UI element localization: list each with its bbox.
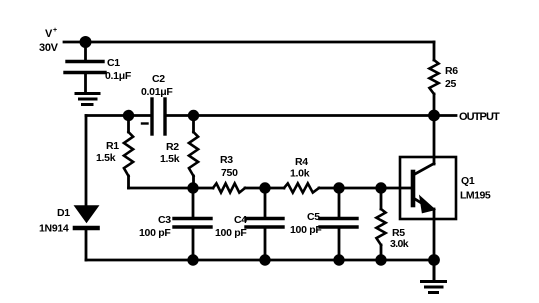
node junction R1/C2 xyxy=(123,110,134,121)
svg-text:C4: C4 xyxy=(234,214,247,226)
svg-text:1N914: 1N914 xyxy=(39,223,69,235)
node junction R5 bottom xyxy=(375,254,386,265)
svg-text:R4: R4 xyxy=(295,156,308,168)
label C3 value xyxy=(139,214,171,239)
svg-text:30V: 30V xyxy=(39,42,59,54)
label R6 value xyxy=(445,65,458,90)
node junction R4/C5 xyxy=(333,182,344,193)
node junction top-left xyxy=(80,36,92,48)
svg-text:1.5k: 1.5k xyxy=(96,152,116,164)
label R1 value xyxy=(96,140,119,164)
label Q1 value xyxy=(460,175,491,202)
node junction R2/C2 xyxy=(188,110,199,121)
svg-text:LM195: LM195 xyxy=(460,190,491,202)
node V+ supply xyxy=(39,27,59,54)
node junction C3 bottom xyxy=(187,254,198,265)
svg-text:1.0k: 1.0k xyxy=(290,168,310,180)
ground bottom right xyxy=(422,260,446,293)
resistor R3 xyxy=(213,183,245,192)
wire output rail xyxy=(86,114,434,117)
svg-text:C5: C5 xyxy=(307,211,320,223)
svg-text:0.01μF: 0.01μF xyxy=(141,86,173,98)
label D1 value xyxy=(39,207,70,235)
resistor R5 xyxy=(376,188,385,260)
svg-text:+: + xyxy=(53,27,57,34)
node junction R2/C3 xyxy=(187,182,198,193)
svg-text:Q1: Q1 xyxy=(461,175,475,187)
ground under C1 xyxy=(76,94,99,105)
capacitor C1 xyxy=(65,62,105,92)
svg-text:OUTPUT: OUTPUT xyxy=(459,111,500,123)
node junction R5/base xyxy=(375,182,386,193)
svg-text:R2: R2 xyxy=(166,141,179,153)
node junction R3/R4/C4 xyxy=(259,182,270,193)
svg-text:R1: R1 xyxy=(106,140,119,152)
label C2 value xyxy=(152,73,165,85)
svg-text:D1: D1 xyxy=(57,207,70,219)
svg-text:C3: C3 xyxy=(158,214,171,226)
svg-text:C2: C2 xyxy=(152,73,165,85)
svg-text:100 pF: 100 pF xyxy=(215,227,247,239)
svg-text:100 pF: 100 pF xyxy=(139,227,171,239)
label C5 value xyxy=(290,211,322,236)
node junction C4 bottom xyxy=(259,254,270,265)
svg-text:25: 25 xyxy=(445,78,457,90)
capacitor C2 xyxy=(152,99,165,134)
label R3 value xyxy=(220,154,238,179)
label C1 value xyxy=(105,57,132,82)
label C4 value xyxy=(215,214,247,239)
transistor Q1 xyxy=(400,116,456,261)
capacitor C3 xyxy=(174,188,211,260)
svg-text:R3: R3 xyxy=(220,154,233,166)
label R4 value xyxy=(290,156,310,180)
label R5 value xyxy=(390,227,409,250)
resistor R4 xyxy=(284,183,319,192)
svg-text:100 pF: 100 pF xyxy=(290,224,322,236)
capacitor C5 xyxy=(320,188,357,260)
wire C2 polarity dash xyxy=(142,122,148,124)
diode D1 xyxy=(75,206,98,260)
svg-text:V: V xyxy=(45,28,53,40)
node junction C5 bottom xyxy=(333,254,344,265)
resistor R6 xyxy=(429,42,438,116)
wire C1 top lead xyxy=(84,42,87,60)
wire top rail xyxy=(85,41,434,44)
capacitor C4 xyxy=(246,188,283,260)
node output junction xyxy=(428,110,440,122)
svg-text:750: 750 xyxy=(221,167,238,179)
resistor R1 xyxy=(124,116,133,189)
svg-text:R6: R6 xyxy=(445,65,458,77)
label OUTPUT xyxy=(440,111,500,123)
svg-text:C1: C1 xyxy=(107,57,120,69)
wire left branch xyxy=(85,116,88,208)
node junction emitter/ground xyxy=(428,254,440,266)
label R2 value xyxy=(160,141,180,165)
svg-text:0.1μF: 0.1μF xyxy=(105,70,132,82)
wire mid rail xyxy=(129,187,414,190)
wire V+ stub xyxy=(64,41,85,44)
wire bottom rail xyxy=(86,259,434,262)
svg-text:3.0k: 3.0k xyxy=(390,238,409,250)
resistor R2 xyxy=(189,116,198,189)
svg-text:1.5k: 1.5k xyxy=(160,153,180,165)
